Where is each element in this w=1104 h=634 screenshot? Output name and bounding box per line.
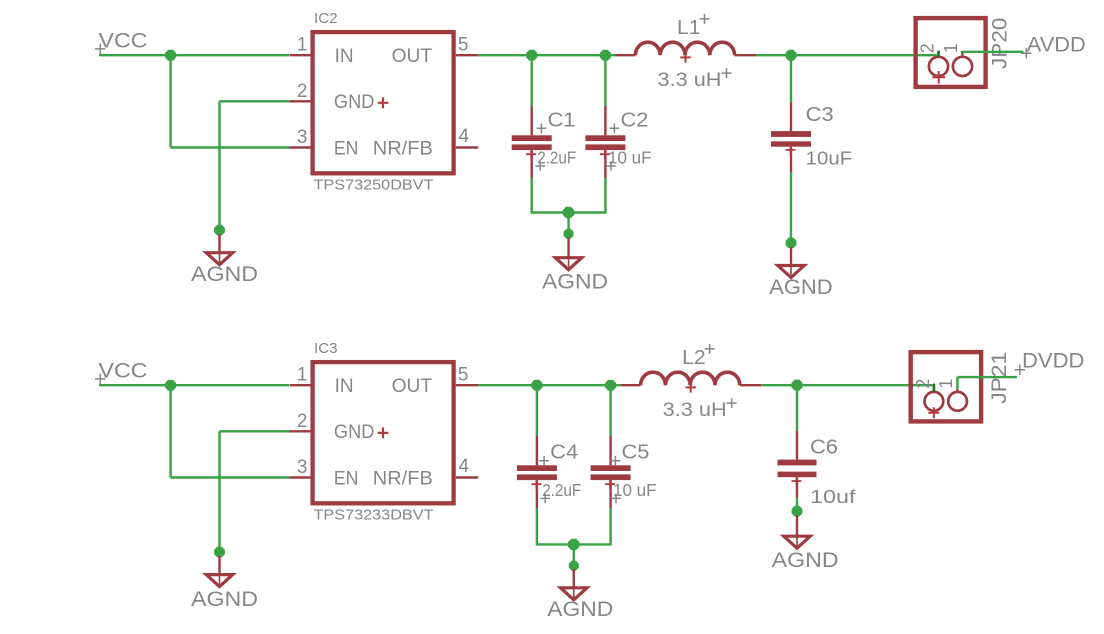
svg-text:C3: C3 (806, 104, 834, 126)
wire bus to ground (573, 544, 575, 561)
regulator IC2 box (313, 32, 454, 173)
origin cross of JP20 (932, 71, 945, 84)
junction node above ground symbol (569, 561, 579, 571)
pin 4 stub of IC2 (456, 146, 479, 148)
wire C3 to ground (790, 173, 792, 238)
wire top stub of C5 (609, 385, 611, 436)
svg-text:C6: C6 (810, 436, 838, 458)
svg-text:1: 1 (936, 379, 956, 389)
wire bottom stub of C5 (609, 508, 611, 544)
ground bus wire (531, 211, 607, 213)
wire top stub of C4 (536, 385, 538, 436)
svg-text:2.2uF: 2.2uF (537, 147, 576, 167)
value label 2.2uF of C1 (535, 147, 576, 170)
svg-text:2: 2 (297, 411, 308, 432)
pin 1 stub of JP20 (961, 51, 963, 57)
inductor L2 left pin stub (621, 384, 641, 386)
pin 4 stub of IC3 (456, 476, 479, 478)
svg-text:AVDD: AVDD (1027, 34, 1086, 57)
svg-text:TPS73250DBVT: TPS73250DBVT (314, 177, 434, 194)
junction node C6 tap (792, 380, 803, 391)
svg-text:EN: EN (334, 468, 359, 489)
wire tap to C3 (790, 55, 792, 102)
wire bottom stub of C1 (531, 178, 533, 213)
capacitor C4 (517, 436, 557, 508)
origin cross of IC2 (378, 97, 389, 108)
wire top stub of C2 (604, 55, 606, 106)
origin cross of L2 (686, 382, 696, 392)
ground bus wire (536, 543, 612, 545)
net label VCC (bottom circuit) (95, 359, 148, 384)
svg-text:3: 3 (297, 457, 308, 478)
pin 5 stub of IC3 (456, 384, 479, 386)
wire junction to EN branch (171, 385, 290, 477)
svg-text:10 uF: 10 uF (613, 480, 657, 500)
wire tap to C6 (796, 385, 798, 431)
svg-text:AGND: AGND (191, 263, 258, 286)
name label C5 (611, 442, 650, 466)
junction node C5 tap (605, 380, 616, 391)
net label AVDD (1021, 34, 1086, 59)
pin 1 stub of IC3 (290, 384, 312, 386)
junction node C4 tap (531, 380, 542, 391)
ground AGND (left, bottom circuit) (191, 556, 258, 611)
inductor L2 coil (641, 372, 740, 385)
svg-text:4: 4 (459, 456, 470, 477)
origin cross of JP21 (928, 407, 939, 418)
junction node above ground symbol (564, 229, 574, 239)
name label C1 (537, 109, 576, 133)
svg-text:5: 5 (458, 34, 469, 55)
pad circle pin 1 of JP21 (948, 392, 967, 411)
wire VCC to IN pin (99, 54, 289, 56)
name label C2 (610, 109, 649, 133)
junction node ground bus (563, 207, 574, 218)
svg-text:2: 2 (297, 81, 308, 102)
svg-text:L1: L1 (677, 17, 701, 39)
pin 2 stub of IC2 (290, 100, 312, 102)
wire GND pin branch (220, 431, 290, 552)
wire OUT to inductor (478, 54, 615, 56)
svg-text:C5: C5 (622, 442, 650, 464)
pin 2 stub of JP21 (933, 384, 936, 392)
svg-text:NR/FB: NR/FB (373, 468, 433, 489)
pin 3 stub of IC3 (290, 476, 312, 478)
junction node ground bus (568, 539, 580, 550)
origin cross of L1 (680, 52, 690, 62)
pad circle pin 2 of JP20 (929, 57, 948, 76)
net label VCC (top circuit) (95, 29, 148, 54)
wire bus to ground (567, 213, 569, 230)
wire VCC to IN pin (99, 384, 289, 386)
svg-text:AGND: AGND (772, 549, 839, 572)
name label C4 (539, 442, 578, 466)
inductor L1 right pin stub (735, 54, 756, 56)
svg-text:2: 2 (913, 379, 933, 389)
wire top stub of C1 (531, 55, 533, 106)
svg-text:10uf: 10uf (810, 487, 857, 507)
connector JP21 box (911, 352, 981, 421)
svg-text:TPS73233DBVT: TPS73233DBVT (314, 507, 434, 524)
wire JP21 pin1 to DVDD (957, 376, 1017, 378)
svg-text:AGND: AGND (547, 598, 613, 621)
svg-text:L2: L2 (682, 347, 706, 369)
ground AGND (left, top circuit) (191, 234, 258, 286)
inductor L1 coil (635, 42, 734, 55)
svg-text:3.3 uH: 3.3 uH (658, 70, 722, 91)
svg-text:3: 3 (297, 127, 308, 148)
junction node C2 tap (600, 50, 611, 61)
svg-text:2.2uF: 2.2uF (542, 480, 581, 500)
inductor L2 right pin stub (740, 384, 761, 386)
svg-text:IC3: IC3 (314, 340, 338, 357)
svg-text:GND: GND (334, 92, 375, 113)
svg-text:1: 1 (941, 43, 961, 53)
junction node VCC (165, 50, 176, 61)
svg-text:AGND: AGND (542, 270, 608, 293)
svg-text:IN: IN (335, 46, 354, 67)
wire bottom stub of C2 (604, 178, 606, 213)
value label 10 uF of C2 (606, 147, 651, 170)
svg-text:OUT: OUT (392, 46, 433, 67)
svg-text:OUT: OUT (392, 376, 433, 397)
wire inductor to connector (761, 384, 932, 386)
pin 2 stub of JP20 (937, 51, 940, 57)
junction node C1 tap (526, 50, 537, 61)
wire C6 to ground (796, 498, 798, 507)
wire inductor to connector (756, 54, 937, 56)
wire OUT to inductor (478, 384, 620, 386)
svg-text:C2: C2 (621, 109, 649, 131)
pin 2 stub of IC3 (290, 430, 312, 432)
wire GND pin branch (220, 101, 290, 230)
capacitor C5 (591, 436, 631, 508)
svg-text:1: 1 (297, 365, 308, 386)
ground AGND (C3) (769, 247, 833, 299)
svg-text:3.3 uH: 3.3 uH (663, 400, 727, 421)
svg-text:AGND: AGND (769, 276, 833, 299)
ground AGND (C6) (772, 516, 839, 573)
wire JP21 pin1 up (956, 377, 958, 389)
svg-text:4: 4 (459, 126, 470, 147)
junction node C6 ground (792, 506, 803, 517)
svg-text:5: 5 (458, 364, 469, 385)
svg-text:10uF: 10uF (806, 149, 853, 169)
svg-text:NR/FB: NR/FB (373, 138, 433, 159)
connector JP20 box (916, 18, 986, 87)
name label L1 (677, 14, 710, 39)
ground AGND (middle, bottom circuit) (547, 569, 613, 620)
svg-text:2: 2 (918, 43, 938, 53)
pin 1 stub of IC2 (290, 54, 312, 56)
value label 10 uF of C5 (611, 480, 656, 503)
regulator IC3 box (313, 362, 454, 503)
pin 3 stub of IC2 (290, 146, 312, 148)
pin 1 stub of JP21 (956, 389, 958, 392)
pad circle pin 2 of JP21 (925, 392, 944, 411)
svg-text:VCC: VCC (99, 359, 148, 382)
svg-text:1: 1 (297, 35, 308, 56)
svg-text:DVDD: DVDD (1022, 350, 1085, 373)
svg-text:IC2: IC2 (314, 10, 338, 27)
svg-text:JP20: JP20 (989, 18, 1012, 70)
origin cross of IC3 (378, 427, 389, 438)
junction node left ground (214, 225, 225, 236)
value label 3.3 uH of L2 (663, 398, 737, 421)
capacitor C6 (778, 431, 817, 498)
net label DVDD (1015, 350, 1085, 375)
ground AGND (middle, top circuit) (542, 238, 608, 294)
junction node C3 tap (786, 50, 797, 61)
svg-text:VCC: VCC (99, 29, 148, 52)
svg-text:AGND: AGND (191, 588, 258, 611)
value label 3.3 uH of L1 (658, 68, 732, 91)
wire junction to EN branch (171, 55, 290, 147)
wire JP20 pin1 to AVDD (963, 51, 1024, 53)
capacitor C2 (585, 106, 625, 178)
pad circle pin 1 of JP20 (953, 57, 972, 76)
svg-text:10 uF: 10 uF (608, 147, 652, 167)
svg-text:IN: IN (335, 376, 354, 397)
svg-text:EN: EN (334, 138, 359, 159)
junction node C3 ground (786, 238, 797, 249)
wire bottom stub of C4 (536, 508, 538, 544)
svg-text:C4: C4 (550, 442, 578, 464)
inductor L1 left pin stub (616, 54, 636, 56)
capacitor C1 (512, 106, 552, 178)
junction node VCC (165, 380, 176, 391)
svg-text:GND: GND (334, 422, 375, 443)
svg-text:C1: C1 (548, 109, 576, 131)
pin 5 stub of IC2 (456, 54, 479, 56)
junction node left ground (214, 547, 225, 558)
capacitor C3 (771, 102, 811, 172)
value label 2.2uF of C4 (540, 480, 581, 503)
name label L2 (682, 344, 715, 369)
